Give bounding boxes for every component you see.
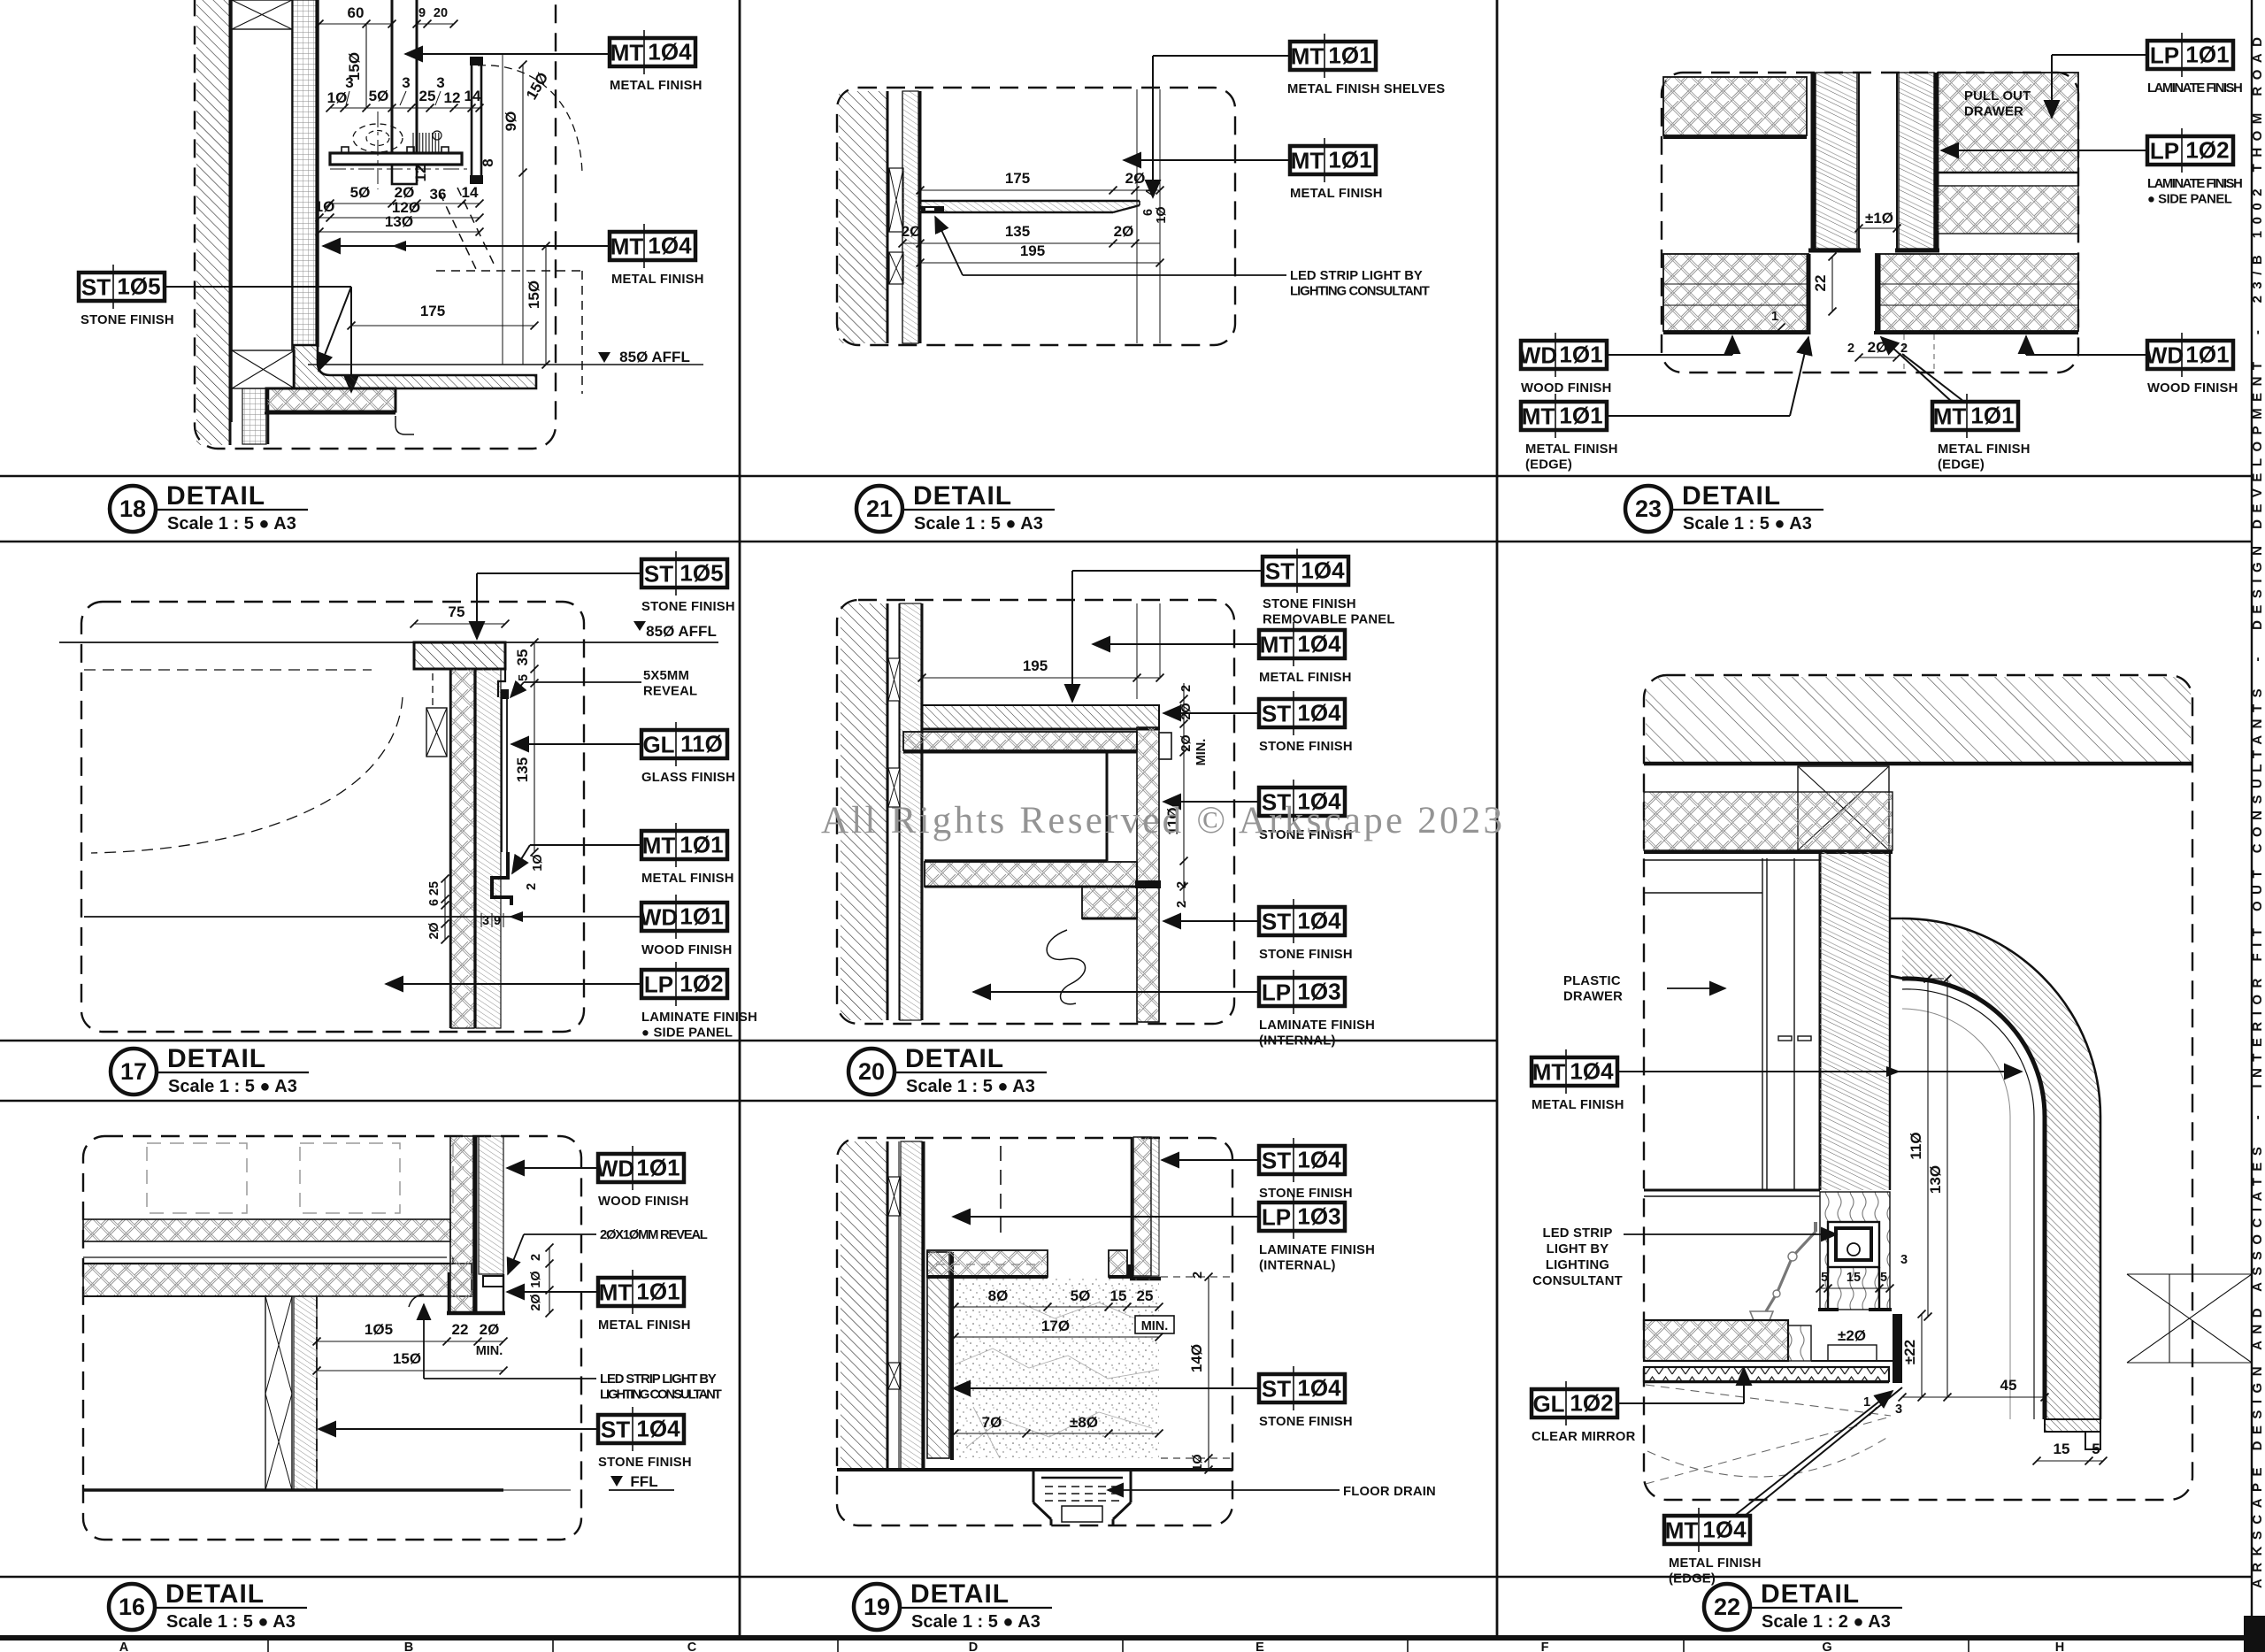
detail 17 label box MT 101: [641, 823, 727, 867]
svg-text:1Ø4: 1Ø4: [1702, 1517, 1747, 1543]
detail 22 ceiling blocking cross box: [1798, 766, 1889, 850]
svg-text:±22: ±22: [1901, 1340, 1918, 1364]
svg-text:WD: WD: [596, 1156, 634, 1182]
title block detail 17: [111, 1044, 309, 1096]
svg-text:PULL OUT: PULL OUT: [1964, 89, 2031, 104]
detail 17 leader from LP 102: [386, 983, 641, 985]
detail 23 leader to LP 102: [1941, 150, 2147, 151]
svg-text:1Ø5: 1Ø5: [365, 1321, 393, 1338]
detail 22 arch faint guide arc: [1902, 1009, 2010, 1419]
detail 17 dim 135: [534, 683, 535, 852]
svg-text:175: 175: [420, 303, 445, 319]
svg-text:GL: GL: [642, 732, 674, 758]
detail 22 substrate band: [1644, 792, 1893, 850]
detail 21 dashed boundary: [837, 88, 1235, 345]
detail 16 led fixture symbol: [409, 1295, 424, 1307]
svg-text:LAMINATE FINISH: LAMINATE FINISH: [1259, 1018, 1375, 1033]
detail 17 leader from WD 101: [84, 916, 641, 918]
svg-text:LAMINATE FINISH: LAMINATE FINISH: [1259, 1243, 1375, 1257]
detail 20 label box ST 104 d: [1259, 899, 1345, 943]
detail 18 dim row 10 120: [319, 217, 480, 219]
svg-text:5: 5: [517, 674, 531, 681]
svg-text:3: 3: [345, 74, 353, 91]
detail 23 label box MT 101 left: [1521, 394, 1607, 438]
svg-text:METAL FINISH: METAL FINISH: [1669, 1556, 1762, 1571]
detail 19 top right strip: [1133, 1137, 1151, 1276]
detail 22 label box GL 102: [1532, 1381, 1617, 1425]
svg-text:H: H: [2055, 1640, 2064, 1652]
detail 17 dims 25 6 20: [444, 879, 446, 940]
svg-text:2Ø: 2Ø: [902, 223, 922, 240]
svg-text:LIGHTING: LIGHTING: [1546, 1258, 1609, 1272]
svg-text:MIN.: MIN.: [1194, 739, 1209, 766]
detail 17 reveal step: [498, 669, 505, 697]
detail 21 label box MT 101: [1290, 138, 1376, 182]
svg-text:WD: WD: [640, 904, 678, 931]
svg-text:2Ø: 2Ø: [480, 1321, 500, 1338]
svg-text:1Ø5: 1Ø5: [117, 273, 160, 300]
svg-text:195: 195: [1023, 657, 1048, 674]
svg-text:CONSULTANT: CONSULTANT: [1532, 1274, 1623, 1288]
detail 20 counter top slab: [922, 705, 1159, 729]
svg-text:5: 5: [1880, 1271, 1887, 1285]
svg-text:18: 18: [119, 496, 146, 522]
svg-text:WD: WD: [1519, 342, 1557, 369]
svg-text:STONE FINISH: STONE FINISH: [1259, 1415, 1353, 1429]
detail 21 dim row 195: [920, 262, 1160, 264]
svg-text:1Ø4: 1Ø4: [1297, 908, 1341, 934]
detail 18 dashed boundary: [195, 0, 556, 449]
svg-text:(INTERNAL): (INTERNAL): [1259, 1259, 1336, 1273]
detail 21 led strip at shelf root: [921, 206, 944, 213]
svg-text:STONE FINISH: STONE FINISH: [641, 600, 735, 614]
svg-text:1Ø2: 1Ø2: [1570, 1390, 1613, 1417]
detail 17 dashed counter curve: [84, 669, 372, 671]
detail 20 label box MT 104: [1259, 622, 1345, 666]
svg-text:14: 14: [465, 88, 481, 104]
detail 23 dim 2 20 2 row: [1859, 357, 1897, 358]
detail 22 edge black bar: [1893, 1314, 1902, 1383]
svg-text:25: 25: [427, 881, 441, 895]
svg-text:STONE FINISH: STONE FINISH: [1263, 597, 1356, 611]
svg-text:11Ø: 11Ø: [1908, 1132, 1924, 1159]
svg-text:2: 2: [1175, 901, 1189, 908]
svg-text:6: 6: [1141, 209, 1156, 216]
detail 23 dim 22 rotated: [1831, 257, 1833, 311]
svg-text:DETAIL: DETAIL: [165, 1579, 265, 1609]
detail 22 column cross brace right: [2127, 1274, 2252, 1363]
svg-text:LIGHTING CONSULTANT: LIGHTING CONSULTANT: [1290, 285, 1430, 299]
title block detail 19: [854, 1579, 1052, 1632]
detail 18 dim 150 lower right: [545, 246, 547, 365]
svg-text:DRAWER: DRAWER: [1964, 105, 2023, 119]
detail 17 label box WD 101: [640, 895, 727, 939]
detail 22 leader from MT 104: [1617, 1071, 2022, 1072]
detail 19 dim row 70 pm80: [955, 1433, 1159, 1434]
svg-text:5Ø: 5Ø: [350, 184, 371, 201]
detail 20 stud blocks: [898, 603, 900, 1020]
svg-text:2: 2: [1847, 342, 1854, 356]
detail 17 wall board strip: [476, 669, 501, 1028]
svg-text:DETAIL: DETAIL: [905, 1044, 1004, 1073]
detail 16 dim 150: [317, 1370, 503, 1372]
svg-text:STONE FINISH: STONE FINISH: [1259, 948, 1353, 962]
detail 20 label box ST 104 removable: [1263, 549, 1348, 593]
svg-text:13Ø: 13Ø: [385, 213, 413, 230]
detail 19 leader from LP 103: [953, 1216, 1259, 1218]
svg-text:PLASTIC: PLASTIC: [1563, 974, 1621, 988]
detail 20 cabinet void: [1106, 752, 1109, 861]
svg-text:1Ø3: 1Ø3: [1297, 979, 1340, 1005]
detail 23 right drawer side panel: [1896, 73, 1898, 249]
svg-text:175: 175: [1005, 170, 1030, 187]
detail 16 bulkhead bottom cap: [447, 1311, 505, 1316]
detail 20 leader to MT 104: [1093, 643, 1259, 645]
detail 16 ceiling band lower: [83, 1264, 472, 1296]
detail 22 leader from GL 102: [1617, 1402, 1744, 1404]
svg-text:5: 5: [1821, 1271, 1828, 1285]
detail 18 vertical support left: [391, 0, 394, 165]
svg-text:3: 3: [482, 914, 489, 928]
title block detail 22: [1704, 1579, 1902, 1632]
svg-text:60: 60: [348, 4, 365, 21]
detail 18 dim row 50 20 36 14: [330, 203, 480, 204]
svg-text:ST: ST: [644, 561, 673, 588]
detail 16 label box WD 101: [596, 1146, 684, 1190]
detail 18 dim row 60 / 9 20: [319, 23, 392, 25]
detail 23 leader to LP 101: [2052, 54, 2147, 56]
detail 23 leader from WD 101 left: [1607, 354, 1732, 356]
detail 17 reveal note: [643, 669, 697, 699]
title band row1 bottom line: [0, 541, 2252, 543]
svg-text:STONE FINISH: STONE FINISH: [598, 1456, 692, 1470]
detail 20 right stone upstand: [1137, 727, 1159, 1022]
svg-text:17Ø: 17Ø: [1041, 1318, 1070, 1334]
detail 22 dashed boundary: [1644, 675, 2192, 1500]
svg-text:35: 35: [514, 649, 531, 666]
svg-text:12: 12: [412, 165, 429, 182]
svg-text:2: 2: [1175, 881, 1189, 888]
svg-text:ST: ST: [601, 1417, 630, 1443]
svg-text:2: 2: [529, 1254, 543, 1261]
detail 23 right mid laminate band: [1938, 186, 2078, 234]
detail 17 dim 35 5: [534, 642, 535, 683]
detail 16 ceiling step lines: [83, 1256, 447, 1258]
svg-text:15: 15: [2054, 1441, 2070, 1457]
svg-text:DETAIL: DETAIL: [913, 481, 1012, 511]
svg-text:1Ø1: 1Ø1: [636, 1155, 679, 1181]
svg-text:MT: MT: [1522, 403, 1555, 430]
detail 18 dim row 130: [319, 231, 480, 233]
detail 22 counter wood block: [1788, 1325, 1811, 1361]
svg-text:3: 3: [436, 74, 444, 91]
svg-text:19: 19: [864, 1594, 890, 1620]
detail 22 led recess wood area: [1820, 1192, 1890, 1310]
svg-text:8Ø: 8Ø: [988, 1287, 1009, 1304]
detail 18 dashed oval fixture: [353, 124, 403, 152]
svg-text:1Ø1: 1Ø1: [679, 832, 723, 858]
svg-text:195: 195: [1020, 242, 1045, 259]
svg-text:LIGHTING CONSULTANT: LIGHTING CONSULTANT: [600, 1388, 722, 1402]
svg-text:9Ø: 9Ø: [503, 111, 519, 132]
title band row2 bottom line: [0, 1100, 1497, 1103]
detail 21 wall face line: [919, 91, 922, 343]
svg-text:WD: WD: [2146, 342, 2184, 369]
detail 19 label box LP 103: [1259, 1195, 1345, 1239]
svg-text:DETAIL: DETAIL: [910, 1579, 1010, 1609]
detail 17 glass pane: [501, 689, 509, 699]
svg-text:Scale 1 : 5 ● A3: Scale 1 : 5 ● A3: [914, 514, 1043, 534]
detail 22 dim 45: [1902, 1396, 2045, 1398]
detail 16 bulkhead black line: [473, 1136, 478, 1311]
svg-text:13Ø: 13Ø: [1927, 1165, 1944, 1194]
detail 22 construction dashed lines: [1646, 1385, 1891, 1416]
detail 18 wall face line: [316, 0, 319, 347]
detail 19 floor drain: [1033, 1470, 1035, 1502]
svg-text:(EDGE): (EDGE): [1525, 458, 1572, 473]
svg-text:A: A: [119, 1640, 129, 1652]
sheet frame right sidebar line: [2251, 0, 2253, 1642]
svg-text:1Ø4: 1Ø4: [1301, 557, 1345, 584]
detail 19 upstand stone strip: [927, 1252, 949, 1458]
detail 18 coil fixture: [413, 131, 441, 152]
svg-text:LP: LP: [1262, 1204, 1291, 1231]
detail 18 centre dash-dot lines: [330, 168, 482, 170]
svg-text:36: 36: [430, 186, 447, 203]
svg-text:15: 15: [1847, 1271, 1861, 1285]
detail 18 leader to MT 104 lower: [323, 245, 610, 247]
detail 22 leaders from MT 104 edge: [1734, 1391, 1893, 1516]
svg-text:METAL FINISH: METAL FINISH: [1290, 187, 1383, 201]
title band row2 top line: [0, 1040, 1497, 1042]
svg-text:5X5MM: 5X5MM: [643, 669, 689, 683]
svg-text:45: 45: [2000, 1377, 2017, 1394]
detail 22 drawer cavity lines: [1819, 852, 1822, 1190]
svg-text:1Ø1: 1Ø1: [2185, 42, 2229, 68]
detail 19 label box ST 104 low: [1259, 1366, 1345, 1410]
detail 23 leader from WD 101 right: [2026, 354, 2147, 356]
title block detail 18: [110, 481, 308, 534]
detail 18 dim 150 upper: [365, 24, 367, 108]
detail 21 leader to MT 101: [1124, 159, 1290, 161]
detail 20 lower band: [925, 862, 1137, 887]
detail 18 lower channel: [392, 165, 417, 184]
detail 16 leader from ST 104: [319, 1428, 598, 1430]
svg-text:12: 12: [444, 89, 461, 106]
svg-text:1Ø1: 1Ø1: [1559, 342, 1602, 368]
svg-text:METAL FINISH: METAL FINISH: [1259, 671, 1352, 685]
svg-text:METAL FINISH: METAL FINISH: [610, 79, 703, 93]
svg-text:Scale 1 : 5 ● A3: Scale 1 : 5 ● A3: [911, 1612, 1040, 1632]
title block detail 23: [1625, 481, 1824, 534]
detail 21 extension lines: [1136, 89, 1138, 343]
detail 21 stud gap: [902, 91, 903, 343]
sheet bottom thick rule: [0, 1635, 2252, 1640]
svg-text:LP: LP: [1262, 980, 1291, 1006]
svg-text:DETAIL: DETAIL: [1682, 481, 1781, 511]
svg-text:LP: LP: [644, 972, 673, 998]
svg-text:2Ø: 2Ø: [1114, 223, 1134, 240]
svg-text:1: 1: [1771, 310, 1778, 324]
detail 22 ceiling slab hatch: [1646, 677, 2191, 762]
svg-text:2: 2: [525, 883, 539, 890]
detail 17 dim 75: [414, 623, 505, 625]
svg-text:MT: MT: [642, 833, 676, 859]
svg-text:1Ø2: 1Ø2: [2185, 137, 2229, 164]
detail 22 label box MT 104 edge: [1664, 1508, 1750, 1552]
svg-text:2: 2: [1900, 342, 1908, 356]
detail 20 label box ST 104 c: [1259, 780, 1345, 824]
detail 17 leader from ST 105: [477, 572, 641, 574]
detail 22 led niche legs: [1827, 1267, 1829, 1308]
svg-text:Scale 1 : 5 ● A3: Scale 1 : 5 ● A3: [167, 514, 296, 534]
svg-text:D: D: [969, 1640, 978, 1652]
detail 18 label box MT 104 lower: [610, 224, 695, 268]
svg-text:MT: MT: [599, 1279, 633, 1306]
detail 21 shelf: [920, 201, 1140, 212]
svg-text:25: 25: [419, 88, 436, 104]
svg-text:1Ø: 1Ø: [531, 854, 545, 871]
detail 19 label box ST 104 top: [1259, 1138, 1345, 1182]
svg-text:1Ø: 1Ø: [315, 198, 335, 215]
svg-text:1Ø4: 1Ø4: [636, 1416, 680, 1442]
detail 18 stud cross brace top: [232, 0, 292, 29]
svg-text:● SIDE PANEL: ● SIDE PANEL: [2147, 193, 2232, 207]
svg-text:1Ø4: 1Ø4: [1297, 631, 1341, 657]
detail 19 dashed boundary: [837, 1138, 1232, 1525]
detail 18 extension lines: [502, 54, 503, 365]
svg-text:GL: GL: [1532, 1391, 1564, 1418]
svg-text:LAMINATE FINISH: LAMINATE FINISH: [2147, 81, 2243, 96]
detail 20 black joint: [1135, 880, 1161, 888]
svg-text:1Ø4: 1Ø4: [1297, 1375, 1341, 1402]
svg-text:14: 14: [462, 184, 479, 201]
svg-text:STONE FINISH: STONE FINISH: [1259, 1187, 1353, 1201]
detail 18 counter sub slab: [266, 388, 395, 411]
detail 22 mirror band: [1644, 1367, 1889, 1381]
detail 19 floor drain note: [1343, 1485, 1436, 1499]
detail 18 metal channel upright: [472, 62, 481, 182]
detail 16 leader from MT 101: [507, 1291, 598, 1293]
title band row3 top line: [0, 1576, 2252, 1579]
svg-text:FFL: FFL: [630, 1473, 657, 1490]
svg-text:DRAWER: DRAWER: [1563, 990, 1623, 1004]
svg-text:LED STRIP LIGHT BY: LED STRIP LIGHT BY: [600, 1372, 717, 1387]
detail 20 leader to ST 104 removable: [1072, 570, 1263, 572]
detail 20 dim 195: [922, 677, 1160, 679]
detail 18 stud cross brace bottom: [232, 350, 295, 388]
svg-text:REVEAL: REVEAL: [643, 685, 697, 699]
detail 16 bulkhead board strip: [479, 1136, 503, 1274]
svg-text:LIGHT BY: LIGHT BY: [1547, 1242, 1609, 1256]
svg-text:11Ø: 11Ø: [680, 731, 723, 757]
svg-text:ST: ST: [1262, 701, 1291, 727]
svg-text:Scale 1 : 2 ● A3: Scale 1 : 2 ● A3: [1762, 1612, 1891, 1632]
detail 17 level line 850 AFFL: [59, 642, 718, 643]
svg-text:METAL FINISH SHELVES: METAL FINISH SHELVES: [1287, 82, 1445, 96]
svg-text:1Ø1: 1Ø1: [1559, 403, 1602, 429]
svg-text:2Ø: 2Ø: [427, 922, 441, 939]
detail 17 label box ST 105: [641, 551, 727, 595]
detail 20 wall face line: [921, 603, 924, 1020]
detail 22 led niche: [1828, 1222, 1879, 1267]
svg-text:METAL FINISH: METAL FINISH: [611, 273, 704, 287]
detail 16 wall hatch strip: [294, 1296, 317, 1490]
svg-text:MT: MT: [1933, 403, 1967, 430]
svg-text:METAL FINISH: METAL FINISH: [598, 1318, 691, 1333]
svg-text:2: 2: [1179, 685, 1194, 692]
detail 18 hidden cabinet dashed lines: [581, 271, 583, 394]
svg-text:LED STRIP: LED STRIP: [1542, 1226, 1612, 1241]
svg-text:8: 8: [480, 158, 496, 166]
svg-text:1Ø5: 1Ø5: [679, 560, 723, 587]
svg-text:WOOD FINISH: WOOD FINISH: [641, 943, 732, 957]
detail 20 substrate band: [903, 732, 1137, 750]
detail 18 shelf bar: [330, 153, 462, 165]
svg-text:25: 25: [1137, 1287, 1154, 1304]
svg-text:1Ø3: 1Ø3: [1297, 1203, 1340, 1230]
detail 23 label box WD 101 left: [1519, 333, 1607, 377]
svg-text:±2Ø: ±2Ø: [1838, 1327, 1866, 1344]
detail 18 dim row 10 50 25 12 14: [330, 107, 480, 109]
svg-text:LP: LP: [2150, 42, 2179, 69]
svg-text:5Ø: 5Ø: [1071, 1287, 1091, 1304]
detail 18 shelf fixing feet: [342, 147, 349, 153]
detail 18 dim 175: [351, 325, 534, 327]
detail 19 min box: [1135, 1316, 1174, 1333]
svg-text:E: E: [1255, 1640, 1264, 1652]
svg-text:G: G: [1822, 1640, 1831, 1652]
svg-text:C: C: [687, 1640, 697, 1652]
svg-text:±1Ø: ±1Ø: [1865, 210, 1893, 227]
detail 22 label box MT 104: [1532, 1049, 1617, 1094]
sheet frame vertical divider col2/col3: [1496, 0, 1499, 1637]
svg-text:METAL FINISH: METAL FINISH: [1525, 442, 1618, 457]
bottom ruler ticks and letters: [119, 1640, 2253, 1652]
svg-text:23: 23: [1635, 496, 1662, 522]
svg-text:Scale 1 : 5 ● A3: Scale 1 : 5 ● A3: [906, 1077, 1035, 1096]
svg-text:1: 1: [1863, 1395, 1870, 1410]
svg-text:1Ø1: 1Ø1: [1970, 403, 2014, 429]
svg-text:● SIDE PANEL: ● SIDE PANEL: [641, 1026, 733, 1041]
detail 17 leader from GL 110: [511, 743, 641, 745]
svg-text:All Rights Reserved © Arkscape: All Rights Reserved © Arkscape 2023: [821, 800, 1502, 841]
detail 16 led leader: [423, 1304, 425, 1379]
svg-text:2Ø: 2Ø: [1179, 703, 1194, 719]
sheet corner black box: [2244, 1616, 2265, 1652]
detail 23 leader from MT 101 left: [1607, 415, 1790, 417]
svg-text:2ØX1ØMM REVEAL: 2ØX1ØMM REVEAL: [600, 1228, 708, 1242]
svg-text:STONE FINISH: STONE FINISH: [81, 313, 174, 327]
detail 18 leader to MT 104 top: [405, 53, 610, 55]
svg-text:WOOD FINISH: WOOD FINISH: [1521, 381, 1611, 396]
svg-text:5: 5: [2092, 1441, 2100, 1457]
svg-text:15Ø: 15Ø: [393, 1350, 421, 1367]
detail 19 leader from ST 104 top: [1162, 1159, 1259, 1161]
detail 23 label box LP 101: [2147, 33, 2233, 77]
detail 16 wall stud column: [265, 1296, 292, 1490]
detail 19 floor line: [837, 1468, 1232, 1471]
svg-text:ST: ST: [1265, 558, 1294, 585]
detail 21 led leader: [935, 217, 963, 275]
svg-text:75: 75: [449, 603, 465, 620]
svg-text:9: 9: [418, 6, 426, 20]
svg-text:15: 15: [1110, 1287, 1127, 1304]
detail 19 wall face line: [923, 1141, 925, 1470]
detail 16 reveal note 20X10MM: [600, 1228, 708, 1242]
detail 22 arch top joint lines: [1890, 918, 1902, 919]
detail 17 dashed boundary: [81, 602, 584, 1032]
